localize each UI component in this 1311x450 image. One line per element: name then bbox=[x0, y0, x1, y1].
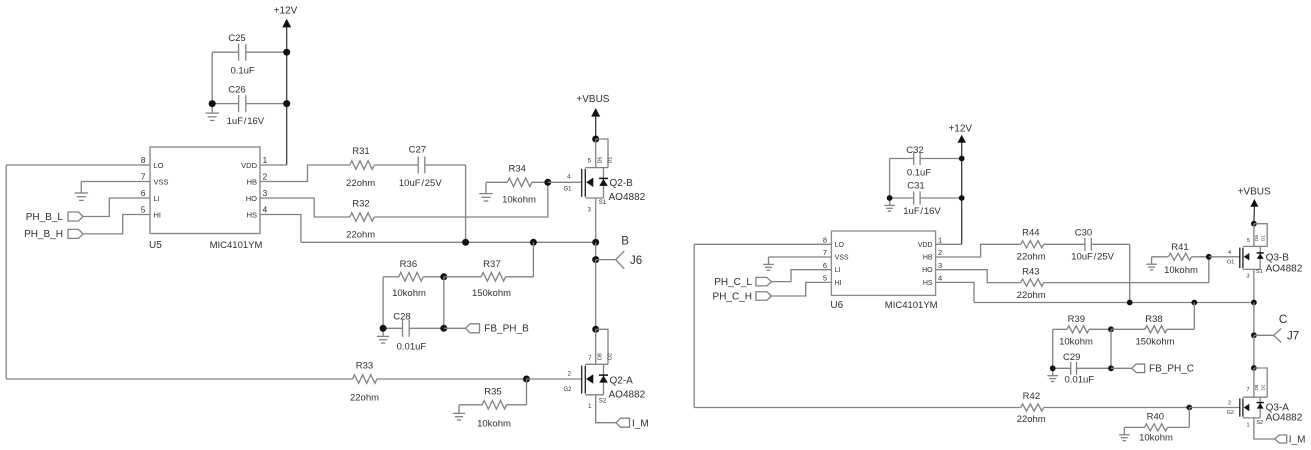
wire pin2 HB bend up to R44 row bbox=[936, 244, 1021, 257]
svg-text:22ohm: 22ohm bbox=[350, 392, 379, 403]
wire R44 to C30 bbox=[1044, 243, 1085, 245]
resistor R40 bbox=[1124, 426, 1144, 428]
junction dots on +12V rail (left) bbox=[283, 49, 290, 56]
wire left-edge vertical down to R33 row bbox=[5, 165, 7, 379]
svg-text:S2: S2 bbox=[1257, 420, 1264, 426]
wire C27 down to node B bus bbox=[465, 165, 467, 242]
svg-text:Q3-B: Q3-B bbox=[1266, 253, 1290, 264]
svg-text:D2: D2 bbox=[608, 353, 614, 360]
svg-text:FB_PH_C: FB_PH_C bbox=[1149, 364, 1194, 375]
wire R39 left leg down to C29 bbox=[1052, 329, 1054, 368]
ground below C31 bbox=[889, 198, 891, 205]
resistor R38 bbox=[1111, 328, 1145, 330]
svg-text:2: 2 bbox=[263, 172, 268, 182]
resistor R42 bbox=[694, 407, 1021, 409]
node Q2-A drain dot bbox=[592, 326, 599, 333]
svg-text:8: 8 bbox=[823, 236, 827, 245]
wire pin4 HS down to node C bus bbox=[936, 282, 974, 302]
svg-text:3: 3 bbox=[938, 261, 942, 270]
svg-text:C29: C29 bbox=[1063, 352, 1080, 363]
svg-text:LO: LO bbox=[835, 242, 845, 249]
svg-text:HB: HB bbox=[923, 255, 933, 262]
node Q2-B drain dot bbox=[592, 136, 599, 143]
junction dots on node C bus bbox=[1127, 300, 1133, 306]
svg-text:C25: C25 bbox=[228, 33, 245, 44]
wire pin2 HB bend up to R31 row bbox=[260, 165, 350, 182]
wire C32 left vertical bbox=[889, 159, 891, 199]
svg-text:0.1uF: 0.1uF bbox=[230, 66, 254, 77]
svg-text:AO4882: AO4882 bbox=[609, 390, 646, 401]
svg-text:D8: D8 bbox=[1254, 384, 1259, 390]
resistor R37 bbox=[444, 276, 482, 278]
wire Q2-A source to I_M bbox=[596, 395, 616, 423]
svg-text:R41: R41 bbox=[1171, 242, 1188, 253]
ground on VSS bbox=[80, 182, 82, 194]
wire junction down to C28 row bbox=[443, 277, 445, 329]
svg-text:D8: D8 bbox=[598, 353, 604, 360]
wire C25 left vertical bbox=[211, 52, 213, 103]
svg-text:VDD: VDD bbox=[241, 161, 257, 170]
wire R31 to C27 bbox=[374, 164, 418, 166]
svg-text:C26: C26 bbox=[228, 85, 245, 96]
svg-text:VSS: VSS bbox=[835, 255, 849, 262]
junction dots C28 row bbox=[380, 325, 387, 332]
transistor Q3-B bbox=[1254, 224, 1267, 247]
resistor R39 bbox=[1053, 328, 1067, 330]
svg-text:HS: HS bbox=[923, 280, 933, 287]
svg-text:R39: R39 bbox=[1068, 314, 1085, 325]
svg-text:+12V: +12V bbox=[274, 6, 298, 17]
wire R32 to Q2-B gate riser bbox=[374, 182, 548, 217]
ground for R35 bbox=[458, 405, 460, 414]
svg-text:1: 1 bbox=[938, 236, 942, 245]
svg-text:7: 7 bbox=[823, 248, 827, 257]
svg-text:22ohm: 22ohm bbox=[1017, 252, 1046, 263]
svg-text:0.1uF: 0.1uF bbox=[907, 167, 931, 178]
svg-text:J7: J7 bbox=[1287, 331, 1299, 343]
svg-text:7: 7 bbox=[141, 172, 146, 182]
svg-text:4: 4 bbox=[263, 205, 268, 215]
svg-text:VDD: VDD bbox=[918, 242, 933, 249]
svg-text:22ohm: 22ohm bbox=[346, 230, 375, 241]
wire pin4 HS down to node B bus bbox=[260, 215, 301, 243]
svg-text:R42: R42 bbox=[1023, 391, 1040, 402]
svg-text:5: 5 bbox=[141, 205, 146, 215]
svg-text:4: 4 bbox=[938, 274, 942, 283]
svg-text:U5: U5 bbox=[149, 240, 162, 251]
svg-text:PH_B_L: PH_B_L bbox=[26, 212, 64, 223]
svg-text:D1: D1 bbox=[608, 157, 614, 164]
svg-text:10kohm: 10kohm bbox=[392, 288, 426, 299]
svg-text:S2: S2 bbox=[599, 398, 607, 404]
svg-text:5: 5 bbox=[823, 274, 827, 283]
wire Q3-B source to bus bbox=[1253, 269, 1255, 302]
wire gate junction to Q3-A bbox=[1189, 407, 1240, 409]
svg-text:3: 3 bbox=[263, 188, 268, 198]
connector J6 bbox=[592, 256, 599, 263]
wire bus down to J7 tap bbox=[1253, 303, 1255, 336]
wire pin5 HI to PH_B_H bbox=[83, 215, 150, 234]
svg-text:HO: HO bbox=[246, 194, 257, 203]
svg-text:HS: HS bbox=[247, 211, 257, 220]
wire gate junction to Q3-B bbox=[1209, 256, 1240, 258]
resistor R33 bbox=[6, 378, 353, 380]
connector J7 bbox=[1251, 332, 1257, 338]
wire R36 left leg down to C28 bbox=[382, 277, 384, 329]
svg-text:PH_C_L: PH_C_L bbox=[714, 277, 752, 288]
wire pin6 LI to PH_B_L bbox=[83, 198, 150, 217]
wire pin7 VSS bbox=[81, 181, 150, 183]
wire R38 up to node C bus bbox=[1193, 303, 1195, 330]
svg-text:0.01uF: 0.01uF bbox=[1065, 375, 1095, 386]
svg-text:10kohm: 10kohm bbox=[502, 194, 536, 205]
svg-text:C31: C31 bbox=[907, 180, 924, 191]
ground for R41 bbox=[1151, 257, 1153, 264]
wire junction down to C29 row bbox=[1110, 329, 1112, 368]
ground for R34 bbox=[485, 182, 487, 193]
svg-text:R34: R34 bbox=[508, 164, 525, 175]
junction dots on +12V rail (right) bbox=[959, 156, 965, 162]
svg-text:C32: C32 bbox=[906, 145, 923, 156]
svg-text:G1: G1 bbox=[1227, 260, 1234, 266]
svg-text:C: C bbox=[1279, 314, 1287, 326]
svg-text:D6: D6 bbox=[1254, 235, 1259, 241]
svg-text:B: B bbox=[621, 235, 629, 247]
wire +VBUS to Q2-B drain bbox=[595, 117, 597, 139]
wire pin6 LI to PH_C_L bbox=[771, 270, 831, 282]
svg-text:LO: LO bbox=[154, 161, 164, 170]
svg-text:HI: HI bbox=[154, 211, 162, 220]
svg-text:R36: R36 bbox=[400, 259, 417, 270]
svg-text:J6: J6 bbox=[630, 255, 642, 267]
junction dots C29 row bbox=[1050, 365, 1056, 371]
svg-text:3: 3 bbox=[1246, 274, 1249, 280]
svg-text:D6: D6 bbox=[598, 157, 604, 164]
transistor Q3-A bbox=[1254, 368, 1267, 397]
svg-text:22ohm: 22ohm bbox=[1017, 414, 1046, 425]
svg-text:10kohm: 10kohm bbox=[477, 418, 511, 429]
svg-text:R44: R44 bbox=[1022, 228, 1039, 239]
node Q2-A gate junction bbox=[523, 376, 530, 383]
svg-text:1uF / 16V: 1uF / 16V bbox=[903, 206, 941, 217]
svg-text:1: 1 bbox=[1246, 423, 1249, 429]
svg-text:10kohm: 10kohm bbox=[1139, 432, 1173, 443]
svg-text:6: 6 bbox=[823, 261, 827, 270]
svg-text:+VBUS: +VBUS bbox=[1238, 187, 1271, 198]
wire pin1 VDD to +12V rail (right) bbox=[936, 243, 962, 245]
ground below C26 bbox=[211, 104, 213, 114]
wire gate junction to Q2-A bbox=[527, 378, 582, 380]
node Q3-A drain dot bbox=[1251, 365, 1257, 371]
port PH_C_H flag bbox=[756, 292, 772, 301]
node R39-R38 junction bbox=[1108, 326, 1114, 332]
port PH_B_H flag bbox=[68, 229, 83, 238]
svg-text:10uF / 25V: 10uF / 25V bbox=[1071, 252, 1114, 263]
svg-text:D1: D1 bbox=[1261, 235, 1266, 241]
transistor Q2-A bbox=[596, 329, 608, 364]
svg-text:G1: G1 bbox=[564, 187, 573, 193]
wire R35 up to gate junction bbox=[526, 379, 528, 405]
svg-text:PH_B_H: PH_B_H bbox=[24, 229, 63, 240]
svg-text:22ohm: 22ohm bbox=[346, 178, 375, 189]
svg-text:MIC4101YM: MIC4101YM bbox=[885, 300, 938, 311]
svg-text:AO4882: AO4882 bbox=[1266, 413, 1303, 424]
wire +12V rail (right) bbox=[961, 143, 963, 245]
node Q3-B drain dot bbox=[1251, 221, 1257, 227]
ground below C29 bbox=[1052, 368, 1054, 375]
resistor R36 bbox=[383, 276, 399, 278]
svg-text:AO4882: AO4882 bbox=[1266, 263, 1303, 274]
svg-text:1: 1 bbox=[263, 155, 268, 165]
svg-text:Q2-B: Q2-B bbox=[610, 178, 634, 189]
wire pin3 HO bend down to R32 row bbox=[260, 198, 350, 217]
svg-text:R40: R40 bbox=[1147, 411, 1164, 422]
svg-text:150kohm: 150kohm bbox=[1135, 336, 1174, 347]
wire R37 up to node B bus bbox=[532, 242, 534, 276]
wire bus down to J6 tap bbox=[595, 242, 597, 259]
svg-text:S1: S1 bbox=[1256, 269, 1263, 275]
wire node C bus bbox=[974, 302, 1254, 304]
port I_M (right) bbox=[1275, 435, 1287, 443]
op-amp U6 MIC4101YM box bbox=[831, 231, 935, 295]
resistor R41 bbox=[1152, 256, 1168, 258]
svg-text:LI: LI bbox=[835, 267, 841, 274]
port PH_C_L flag bbox=[756, 277, 772, 286]
resistor R35 bbox=[459, 404, 482, 406]
svg-text:+12V: +12V bbox=[948, 124, 972, 135]
wire left-edge vertical down to R42 row bbox=[693, 244, 695, 407]
svg-text:R35: R35 bbox=[484, 386, 501, 397]
ground on U6 VSS bbox=[768, 257, 770, 264]
wire +VBUS to Q3-B drain bbox=[1253, 207, 1256, 224]
wire pin7 VSS (right) bbox=[769, 256, 832, 258]
wire J7 tap down to Q3-A drain bbox=[1253, 335, 1255, 368]
svg-text:AO4882: AO4882 bbox=[609, 192, 646, 203]
svg-text:HI: HI bbox=[835, 280, 842, 287]
svg-text:10kohm: 10kohm bbox=[1164, 265, 1198, 276]
svg-text:MIC4101YM: MIC4101YM bbox=[210, 240, 263, 251]
svg-text:LI: LI bbox=[154, 194, 160, 203]
svg-text:0.01uF: 0.01uF bbox=[397, 341, 427, 352]
svg-text:R37: R37 bbox=[483, 259, 500, 270]
resistor R34 bbox=[486, 181, 507, 183]
svg-text:1uF / 16V: 1uF / 16V bbox=[227, 116, 265, 127]
svg-text:R38: R38 bbox=[1145, 314, 1162, 325]
wire J6 tap down to Q2-A drain bbox=[595, 260, 597, 330]
ground below C28 bbox=[382, 328, 384, 336]
svg-text:+VBUS: +VBUS bbox=[576, 94, 609, 105]
svg-text:Q2-A: Q2-A bbox=[610, 376, 634, 387]
wire gate junction to Q2-B bbox=[548, 181, 582, 183]
svg-text:I_M: I_M bbox=[1289, 435, 1306, 446]
svg-text:R43: R43 bbox=[1022, 266, 1039, 277]
wire R43 to Q3-B gate riser bbox=[1044, 257, 1209, 283]
svg-text:6: 6 bbox=[141, 188, 146, 198]
wire node B bus bbox=[301, 241, 596, 243]
svg-text:I_M: I_M bbox=[632, 418, 649, 429]
svg-text:C30: C30 bbox=[1075, 228, 1092, 239]
svg-text:2: 2 bbox=[1228, 401, 1231, 407]
wire Q3-A source to I_M bbox=[1254, 418, 1275, 439]
ground for R40 bbox=[1123, 427, 1125, 434]
node Q3-A gate junction bbox=[1186, 405, 1192, 411]
svg-text:2: 2 bbox=[938, 248, 942, 257]
svg-text:S1: S1 bbox=[599, 200, 607, 206]
transistor Q2-B bbox=[596, 139, 608, 168]
wire pin8 LO to left edge bbox=[6, 164, 150, 166]
wire pin5 HI to PH_C_H bbox=[771, 282, 831, 296]
port I_M (left) bbox=[616, 418, 630, 427]
wire pin3 HO bend down to R43 row bbox=[936, 270, 1021, 283]
node Q2-B gate junction bbox=[544, 179, 551, 186]
svg-text:HO: HO bbox=[922, 267, 933, 274]
svg-text:U6: U6 bbox=[830, 300, 843, 311]
svg-text:R31: R31 bbox=[352, 146, 369, 157]
node Q3-B gate junction bbox=[1206, 254, 1212, 260]
svg-text:4: 4 bbox=[1228, 250, 1231, 256]
wire Q2-B source to bus bbox=[595, 198, 597, 242]
svg-text:G2: G2 bbox=[564, 387, 573, 393]
svg-text:10uF / 25V: 10uF / 25V bbox=[399, 178, 442, 189]
port PH_B_L flag bbox=[68, 212, 83, 221]
junction dots on node B bus bbox=[462, 239, 469, 246]
wire pin1 VDD to +12V rail bbox=[260, 164, 287, 166]
svg-text:PH_C_H: PH_C_H bbox=[713, 291, 752, 302]
svg-text:10kohm: 10kohm bbox=[1059, 336, 1093, 347]
svg-text:VSS: VSS bbox=[154, 178, 169, 187]
svg-text:G2: G2 bbox=[1227, 410, 1234, 416]
svg-text:HB: HB bbox=[247, 178, 257, 187]
svg-text:5: 5 bbox=[1247, 238, 1250, 244]
port FB_PH_C bbox=[1111, 367, 1132, 369]
svg-text:7: 7 bbox=[1246, 387, 1249, 393]
svg-text:8: 8 bbox=[141, 155, 146, 165]
svg-text:150kohm: 150kohm bbox=[472, 288, 511, 299]
svg-text:D2: D2 bbox=[1261, 384, 1266, 390]
svg-text:22ohm: 22ohm bbox=[1017, 290, 1046, 301]
svg-text:R32: R32 bbox=[352, 198, 369, 209]
wire R40 up to gate junction bbox=[1188, 408, 1190, 428]
port FB_PH_B bbox=[444, 327, 466, 329]
wire +12V rail (left) bbox=[286, 27, 288, 165]
svg-text:FB_PH_B: FB_PH_B bbox=[484, 324, 529, 335]
wire C30 down to node C bus bbox=[1129, 244, 1131, 302]
op-amp U5 MIC4101YM box bbox=[150, 147, 260, 234]
node R36-R37 junction bbox=[440, 273, 447, 280]
svg-text:R33: R33 bbox=[356, 361, 373, 372]
svg-text:C27: C27 bbox=[409, 145, 426, 156]
wire pin8 LO to left edge (right half) bbox=[694, 243, 831, 245]
